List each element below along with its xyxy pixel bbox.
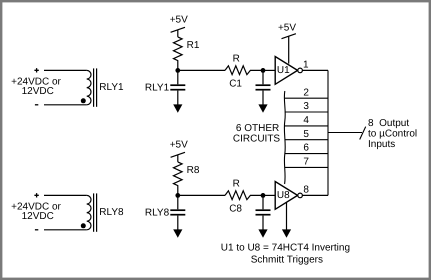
svg-text:U1 to U8 = 74HCT4 Inverting: U1 to U8 = 74HCT4 Inverting (221, 242, 350, 253)
svg-text:3: 3 (303, 101, 309, 112)
svg-text:R: R (233, 54, 240, 65)
svg-text:CIRCUITS: CIRCUITS (233, 133, 281, 144)
svg-text:RLY8: RLY8 (145, 207, 170, 218)
svg-text:R8: R8 (187, 165, 200, 176)
svg-text:+5V: +5V (170, 14, 188, 25)
svg-text:Inputs: Inputs (368, 139, 395, 150)
svg-text:RLY8: RLY8 (99, 207, 124, 218)
svg-text:1: 1 (303, 59, 309, 70)
svg-text:8 Output: 8 Output (368, 118, 409, 129)
svg-text:R: R (233, 179, 240, 190)
svg-text:12VDC: 12VDC (22, 211, 54, 222)
svg-text:C8: C8 (229, 204, 242, 215)
svg-text:C1: C1 (229, 79, 242, 90)
svg-text:U8: U8 (277, 190, 290, 201)
svg-text:Schmitt Triggers: Schmitt Triggers (251, 255, 323, 266)
svg-text:12VDC: 12VDC (22, 86, 54, 97)
svg-text:RLY1: RLY1 (145, 82, 170, 93)
svg-text:2: 2 (303, 87, 309, 98)
svg-text:6: 6 (303, 143, 309, 154)
svg-text:U1: U1 (277, 65, 290, 76)
svg-text:R1: R1 (187, 40, 200, 51)
svg-text:6 OTHER: 6 OTHER (236, 123, 279, 134)
svg-text:RLY1: RLY1 (99, 82, 124, 93)
svg-text:8: 8 (303, 184, 309, 195)
svg-text:+5V: +5V (170, 139, 188, 150)
svg-text:7: 7 (303, 157, 309, 168)
svg-text:4: 4 (303, 115, 309, 126)
svg-text:+5V: +5V (278, 22, 296, 33)
svg-text:to µControl: to µControl (368, 129, 417, 140)
svg-text:5: 5 (303, 129, 309, 140)
